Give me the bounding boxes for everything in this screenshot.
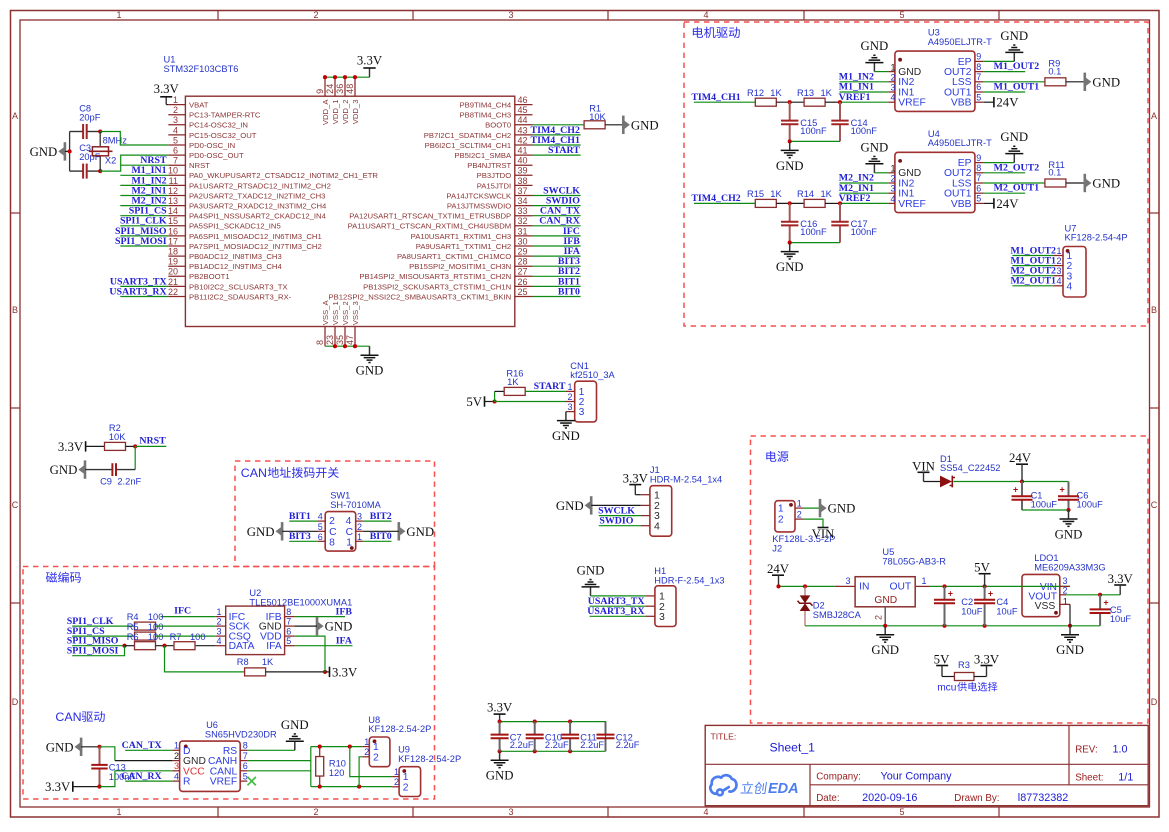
- svg-text:PB1ADC12_IN9TIM3_CH4: PB1ADC12_IN9TIM3_CH4: [189, 262, 282, 271]
- ground under LDO1: [1069, 626, 1071, 635]
- svg-text:17: 17: [168, 236, 178, 246]
- svg-text:1: 1: [568, 382, 573, 392]
- J1 pins: [641, 494, 650, 496]
- svg-text:19: 19: [168, 257, 178, 267]
- wire IFC to U2 pin1: [161, 616, 216, 618]
- svg-text:X2: X2: [105, 155, 116, 165]
- svg-text:R13: R13: [797, 88, 814, 98]
- svg-text:IFA: IFA: [266, 641, 282, 652]
- U1 pin 19 PB1ADC12_IN9TIM3_CH4: [168, 265, 185, 267]
- svg-text:DATA: DATA: [229, 641, 255, 652]
- svg-text:2: 2: [891, 72, 896, 82]
- svg-text:SPI1_MOSI: SPI1_MOSI: [115, 236, 167, 247]
- wire cap bottoms to gnd: [1022, 509, 1069, 511]
- resistor R13: [804, 98, 825, 106]
- power flag 24V at U3 VBB: [984, 101, 994, 103]
- svg-text:4: 4: [1067, 281, 1073, 292]
- svg-text:6: 6: [976, 183, 981, 193]
- svg-text:7: 7: [286, 616, 291, 626]
- U1 pin 14 PA4SPI1_NSSUSART2_CKADC12_IN4: [168, 215, 185, 217]
- svg-text:VREF: VREF: [210, 777, 237, 788]
- U3 pin 1 GND: [888, 71, 895, 73]
- svg-text:VBB: VBB: [951, 199, 972, 210]
- wire net M2_OUT2 to U7 pin 3: [1012, 275, 1054, 277]
- svg-text:Company:: Company:: [816, 771, 861, 782]
- LDO1 pin stubs: [1060, 585, 1070, 587]
- svg-text:3: 3: [357, 512, 362, 522]
- wire net M2_IN1 to U1 pin 12: [120, 195, 168, 197]
- svg-text:REV:: REV:: [1075, 745, 1098, 756]
- svg-text:78L05G-AB3-R: 78L05G-AB3-R: [882, 556, 946, 566]
- ground under C16: [789, 243, 791, 252]
- U4 pin 7 LSS: [975, 182, 984, 184]
- wire BIT3 to SW1 pin6: [289, 540, 318, 542]
- svg-text:44: 44: [518, 115, 528, 125]
- svg-text:100nF: 100nF: [800, 126, 827, 136]
- svg-text:+: +: [988, 589, 993, 599]
- wire SW1 pin1 to BIT0: [363, 540, 392, 542]
- wire U3 LSS to R9: [984, 81, 1045, 83]
- resistor R12: [755, 98, 776, 106]
- svg-text:BIT0: BIT0: [558, 286, 580, 297]
- svg-text:9: 9: [315, 89, 325, 94]
- svg-text:24V: 24V: [767, 562, 790, 576]
- power flag VIN at J2: [818, 527, 829, 529]
- wire R7 to U2 pin4: [196, 645, 216, 647]
- svg-text:PA13JTMSSWDIO: PA13JTMSSWDIO: [447, 202, 511, 211]
- svg-text:PB2BOOT1: PB2BOOT1: [189, 272, 230, 281]
- capacitor C6: [1068, 482, 1070, 497]
- wire cap bottoms U3: [790, 140, 840, 142]
- wire R16 to CN1 pin1 START: [525, 390, 566, 392]
- svg-text:GND: GND: [356, 364, 384, 378]
- svg-text:8MHz: 8MHz: [103, 136, 128, 146]
- svg-text:VDD_2: VDD_2: [341, 100, 350, 125]
- svg-text:4: 4: [891, 93, 896, 103]
- svg-text:PA10USART1_RXTIM1_CH3: PA10USART1_RXTIM1_CH3: [411, 232, 512, 241]
- svg-text:SPI1_MOSI: SPI1_MOSI: [67, 646, 119, 657]
- CN1 pins: [566, 390, 575, 392]
- ground above U3 pin1: [874, 71, 888, 73]
- svg-text:47: 47: [345, 335, 355, 345]
- svg-text:1: 1: [173, 95, 178, 105]
- svg-text:VIN: VIN: [812, 527, 835, 541]
- svg-text:20: 20: [168, 267, 178, 277]
- svg-text:3: 3: [1057, 266, 1062, 276]
- svg-text:VBB: VBB: [951, 98, 972, 109]
- wire U4 LSS to R11: [984, 182, 1045, 184]
- svg-text:41: 41: [518, 146, 528, 156]
- svg-text:6: 6: [976, 82, 981, 92]
- svg-text:10uF: 10uF: [961, 606, 983, 616]
- ground under C7: [499, 751, 501, 760]
- resistor R8: [245, 668, 266, 676]
- svg-text:3.3V: 3.3V: [974, 652, 1000, 666]
- svg-text:1: 1: [891, 164, 896, 174]
- svg-text:24: 24: [325, 84, 335, 94]
- svg-text:10uF: 10uF: [996, 606, 1018, 616]
- svg-text:5V: 5V: [934, 652, 950, 666]
- U1 pin 26 PB13SPI2_SCKUSART3_CTSTIM1_CH1N: [515, 285, 533, 287]
- U2 pins: [216, 616, 226, 618]
- ground under C15: [789, 141, 791, 150]
- wire J2 pin2 to VIN: [803, 519, 823, 527]
- svg-text:VIN: VIN: [912, 459, 935, 473]
- svg-text:2.2uF: 2.2uF: [545, 740, 569, 750]
- resistor R16: [504, 387, 525, 395]
- wire net SPI1_CLK to U1 pin 15: [120, 225, 168, 227]
- svg-text:2: 2: [403, 782, 409, 793]
- svg-text:2: 2: [174, 751, 179, 761]
- svg-text:NRST: NRST: [189, 161, 210, 170]
- U1 pin 46 PB9TIM4_CH4: [515, 104, 533, 106]
- svg-text:7: 7: [173, 156, 178, 166]
- svg-text:PA11USART1_CTSCAN_RXTIM1_CH4US: PA11USART1_CTSCAN_RXTIM1_CH4USBDM: [348, 222, 512, 231]
- svg-text:8: 8: [286, 607, 291, 617]
- svg-text:STM32F103CBT6: STM32F103CBT6: [164, 64, 239, 74]
- wire M1_IN1 to U3 pin3: [840, 91, 889, 93]
- svg-text:1: 1: [116, 807, 121, 817]
- svg-text:1: 1: [346, 537, 352, 548]
- svg-text:4: 4: [217, 636, 222, 646]
- svg-text:14: 14: [168, 206, 178, 216]
- svg-text:Your Company: Your Company: [881, 770, 953, 782]
- svg-text:GND: GND: [776, 159, 804, 173]
- wire J2 pin1 to gnd: [803, 507, 820, 509]
- svg-text:2: 2: [364, 747, 369, 757]
- svg-text:GND: GND: [861, 39, 889, 53]
- driver U3 A4950ELJTR-T body: [895, 51, 975, 111]
- svg-text:100nF: 100nF: [851, 126, 878, 136]
- svg-text:C: C: [1151, 500, 1158, 510]
- wire CANL: [247, 770, 310, 772]
- resistor R9: [1045, 78, 1066, 86]
- ground flag at SW1 pin5: [281, 522, 284, 540]
- wire SPI1_CLK to R5: [72, 625, 134, 627]
- svg-text:2: 2: [394, 777, 399, 787]
- wire LDO1 VSS to gnd: [1069, 604, 1071, 625]
- svg-text:3.3V: 3.3V: [1108, 572, 1134, 586]
- svg-text:1: 1: [1057, 246, 1062, 256]
- svg-text:26: 26: [518, 277, 528, 287]
- regulator U5 body: [855, 577, 915, 607]
- svg-text:GND: GND: [577, 564, 605, 578]
- svg-text:B: B: [1151, 305, 1157, 315]
- svg-text:31: 31: [518, 226, 528, 236]
- U5 GND pin 2: [884, 607, 886, 626]
- ground flag at J1 pin2: [590, 496, 593, 514]
- wire R3 to 3.3V: [974, 676, 987, 678]
- svg-text:3: 3: [508, 807, 513, 817]
- wire DATA node to R8: [165, 646, 245, 672]
- switch SW1 body: [325, 512, 356, 551]
- U1 pin 32 PA11USART1_CTSCAN_RXTIM1_CH4USBDM: [515, 225, 533, 227]
- svg-text:24V: 24V: [996, 96, 1019, 110]
- svg-text:3.3V: 3.3V: [58, 440, 84, 454]
- wire SPI1_MOSI join: [72, 646, 124, 656]
- wire 3.3V to C13: [73, 786, 100, 788]
- U1 VDD pins 9/24/36/48: [324, 77, 326, 96]
- svg-text:1: 1: [174, 741, 179, 751]
- svg-text:A: A: [1151, 111, 1157, 121]
- svg-text:R3: R3: [958, 660, 970, 670]
- svg-text:3.3V: 3.3V: [332, 665, 358, 679]
- svg-text:GND: GND: [50, 463, 78, 477]
- capacitor C11: [569, 722, 571, 735]
- node OSC_IN junction: [98, 129, 102, 133]
- svg-text:PC14-OSC32_IN: PC14-OSC32_IN: [189, 121, 248, 130]
- svg-text:3: 3: [579, 407, 585, 418]
- svg-text:1K: 1K: [262, 657, 274, 667]
- svg-text:3.3V: 3.3V: [357, 53, 383, 67]
- svg-text:100nF: 100nF: [109, 772, 136, 782]
- svg-text:SS54_C22452: SS54_C22452: [940, 463, 1000, 473]
- section box 电机驱动: [684, 22, 1148, 326]
- svg-text:IFA: IFA: [336, 635, 353, 646]
- svg-text:PB14SPI2_MISOUSART3_RTSTIM1_CH: PB14SPI2_MISOUSART3_RTSTIM1_CH2N: [359, 272, 511, 281]
- svg-text:+: +: [948, 589, 953, 599]
- svg-text:SWDIO: SWDIO: [599, 516, 633, 527]
- U3 pin 6 OUT1: [975, 91, 984, 93]
- svg-text:C9: C9: [100, 477, 112, 487]
- wire U1 pin 25 to net BIT0: [533, 296, 581, 298]
- resistor R1: [584, 121, 605, 129]
- capacitor C10: [534, 722, 536, 735]
- ground flag at J2 pin1: [819, 499, 822, 517]
- svg-text:PB3JTDO: PB3JTDO: [477, 171, 512, 180]
- svg-text:GND: GND: [30, 145, 58, 159]
- SW1 pins: [318, 520, 325, 522]
- wire U1 pin 30 to net IFB: [533, 245, 581, 247]
- svg-text:TIM4_CH1: TIM4_CH1: [691, 92, 740, 103]
- resistor R2: [105, 442, 126, 450]
- svg-text:13: 13: [168, 196, 178, 206]
- power flag 3.3V at U1 pin1: [166, 104, 168, 106]
- svg-text:16: 16: [168, 226, 178, 236]
- svg-text:ME6209A33M3G: ME6209A33M3G: [1034, 562, 1105, 572]
- capacitor C4: [984, 586, 986, 599]
- H1 pins: [646, 595, 655, 597]
- section title 电源: [766, 451, 788, 462]
- resistor R10: [319, 747, 321, 757]
- svg-text:9: 9: [976, 153, 981, 163]
- svg-text:R7: R7: [170, 632, 182, 642]
- svg-text:PB4NJTRST: PB4NJTRST: [467, 161, 511, 170]
- ground under C1 C6: [1068, 510, 1070, 519]
- wire U4 OUT1: [984, 192, 1025, 194]
- capacitor C5: [1099, 595, 1101, 610]
- U3 pin 9 EP: [975, 60, 984, 62]
- U1 pin 21 PB10I2C2_SCLUSART3_TX: [168, 285, 185, 287]
- svg-text:28: 28: [518, 257, 528, 267]
- svg-text:C: C: [12, 500, 19, 510]
- svg-text:R4: R4: [127, 612, 139, 622]
- U7 pin 2: [1054, 265, 1063, 267]
- U1 pin 20 PB2BOOT1: [168, 275, 185, 277]
- svg-text:M2_OUT1: M2_OUT1: [994, 183, 1040, 194]
- svg-text:2: 2: [797, 509, 802, 519]
- svg-text:GND: GND: [247, 525, 275, 539]
- svg-text:PA0_WKUPUSART2_CTSADC12_IN0TIM: PA0_WKUPUSART2_CTSADC12_IN0TIM2_CH1_ETR: [189, 171, 378, 180]
- diode D2 TVS: [804, 586, 806, 595]
- svg-text:4: 4: [654, 520, 660, 532]
- svg-text:10: 10: [168, 166, 178, 176]
- svg-text:VREF1: VREF1: [839, 92, 871, 103]
- wire gnd rail under caps: [500, 750, 606, 752]
- svg-text:1K: 1K: [821, 189, 833, 199]
- node OSC_OUT junction: [98, 169, 102, 173]
- wire SWDIO to J1 pin4: [599, 525, 641, 527]
- svg-text:PB15SPI2_MOSITIM1_CH3N: PB15SPI2_MOSITIM1_CH3N: [409, 262, 511, 271]
- svg-text:7: 7: [243, 751, 248, 761]
- ground flag at crystal: [64, 142, 67, 160]
- svg-text:7: 7: [976, 72, 981, 82]
- ground flag at U2 pin7: [316, 617, 319, 635]
- ground flag at C9: [84, 460, 87, 478]
- svg-text:100: 100: [148, 622, 164, 632]
- U1 pin 22 PB11I2C2_SDAUSART3_RX-: [168, 296, 185, 298]
- wire USART3_RX to H1 pin3: [590, 615, 646, 617]
- svg-text:5V: 5V: [466, 395, 482, 409]
- svg-text:GND: GND: [1000, 130, 1028, 144]
- svg-text:4: 4: [346, 516, 352, 527]
- svg-text:4: 4: [174, 772, 179, 782]
- svg-text:R5: R5: [127, 622, 139, 632]
- svg-text:VDD_3: VDD_3: [351, 100, 360, 125]
- capacitor C17: [839, 203, 841, 221]
- svg-text:D: D: [12, 697, 19, 707]
- wire VIN to D1: [924, 481, 941, 483]
- svg-text:PB7I2C1_SDATIM4_CH2: PB7I2C1_SDATIM4_CH2: [424, 131, 511, 140]
- wire U1 pin 28 to net BIT3: [533, 265, 581, 267]
- sensor U2 body: [226, 606, 285, 655]
- wire VSS rail to GND: [325, 345, 370, 347]
- svg-text:PB0ADC12_IN8TIM3_CH3: PB0ADC12_IN8TIM3_CH3: [189, 252, 282, 261]
- svg-text:5: 5: [899, 807, 904, 817]
- svg-text:20pF: 20pF: [79, 112, 101, 122]
- svg-text:PC15-OSC32_OUT: PC15-OSC32_OUT: [189, 131, 257, 140]
- capacitor C7: [499, 722, 501, 735]
- section title 磁编码: [46, 572, 81, 583]
- ground above U4 pin1: [874, 172, 888, 174]
- resistor R15: [755, 199, 776, 207]
- svg-text:PA4SPI1_NSSUSART2_CKADC12_IN4: PA4SPI1_NSSUSART2_CKADC12_IN4: [189, 212, 327, 221]
- svg-text:4: 4: [703, 807, 708, 817]
- svg-text:6: 6: [173, 146, 178, 156]
- svg-text:kf2510_3A: kf2510_3A: [570, 370, 615, 380]
- svg-text:2.2uF: 2.2uF: [616, 740, 640, 750]
- wire 5V to R16: [494, 391, 496, 401]
- svg-text:GND: GND: [828, 502, 856, 516]
- U1 pin 29 PA8USART1_CKTIM1_CH1MCO: [515, 255, 533, 257]
- wire CAN_RX to U6 pin4: [125, 780, 172, 782]
- svg-text:3: 3: [508, 10, 513, 20]
- connector U9 body: [399, 767, 421, 797]
- wire U4 OUT2: [984, 172, 1025, 174]
- svg-text:32: 32: [518, 216, 528, 226]
- wire U6 RS to gnd: [247, 749, 294, 751]
- svg-text:2.2uF: 2.2uF: [580, 740, 604, 750]
- resistor R14: [804, 199, 825, 207]
- svg-text:3.3V: 3.3V: [487, 701, 513, 715]
- wire R11 to GND: [1066, 182, 1085, 184]
- svg-text:BOOT0: BOOT0: [485, 121, 511, 130]
- wire SPI1_MISO to R6b: [72, 645, 124, 647]
- svg-text:VDD_1: VDD_1: [331, 100, 340, 125]
- svg-text:START: START: [548, 145, 580, 156]
- svg-text:1: 1: [357, 532, 362, 542]
- svg-text:PB12SPI2_NSSI2C2_SMBAUSART3_CK: PB12SPI2_NSSI2C2_SMBAUSART3_CKTIM1_BKIN: [328, 292, 511, 301]
- wire net USART3_TX to U1 pin 21: [120, 285, 168, 287]
- wire CANL bottom rail: [311, 786, 392, 788]
- U1 pin 45 PB8TIM4_CH3: [515, 114, 533, 116]
- U3 pin 3 IN1: [888, 91, 895, 93]
- wire crystal to U1 pin5: [100, 132, 168, 146]
- svg-text:6: 6: [286, 626, 291, 636]
- svg-text:3: 3: [891, 83, 896, 93]
- svg-text:GND: GND: [325, 620, 353, 634]
- capacitor C1: [1021, 482, 1023, 497]
- svg-text:BIT2: BIT2: [370, 511, 392, 522]
- svg-text:24V: 24V: [996, 197, 1019, 211]
- svg-text:6: 6: [318, 532, 323, 542]
- svg-text:VSS_3: VSS_3: [351, 301, 360, 325]
- wire CANH top rail: [311, 746, 363, 748]
- wire R14 to U4 pin4: [825, 202, 840, 204]
- svg-text:R: R: [183, 777, 190, 788]
- svg-text:9: 9: [976, 52, 981, 62]
- svg-text:BIT1: BIT1: [289, 511, 311, 522]
- svg-text:START: START: [534, 381, 566, 392]
- wire U1 pin 31 to net IFC: [533, 235, 581, 237]
- U1 pin 13 PA3USART2_RXADC12_IN3TIM2_CH4: [168, 205, 185, 207]
- wire U1 pin 34 to net SWDIO: [533, 205, 581, 207]
- wire net M1_IN1 to U1 pin 10: [120, 174, 168, 176]
- svg-text:VSS_A: VSS_A: [321, 300, 330, 326]
- wire NRST to C9: [134, 446, 136, 469]
- U1 pin 10 PA0_WKUPUSART2_CTSADC12_IN0TIM2_CH1_ETR: [168, 174, 185, 176]
- wire M1_IN2 to U3 pin2: [840, 81, 889, 83]
- svg-text:GND: GND: [406, 525, 434, 539]
- wire D1 to 24V rail: [954, 481, 1069, 483]
- frame column/row tick marks: [217, 11, 219, 21]
- capacitor C9: [85, 469, 112, 471]
- wire M2_IN1 to U4 pin3: [840, 192, 889, 194]
- svg-text:GND: GND: [1055, 527, 1083, 541]
- svg-text:8: 8: [329, 537, 335, 548]
- wire net SPI1_MISO to U1 pin 16: [120, 235, 168, 237]
- U4 pin 2 IN2: [888, 182, 895, 184]
- svg-text:PA1USART2_RTSADC12_IN1TIM2_CH2: PA1USART2_RTSADC12_IN1TIM2_CH2: [189, 181, 331, 190]
- ground under U5: [884, 626, 886, 635]
- U1 pin 2 PC13-TAMPER-RTC: [168, 114, 185, 116]
- U1 pin 30 PA9USART1_TXTIM1_CH2: [515, 245, 533, 247]
- wire R12 to R13: [776, 101, 804, 103]
- svg-text:35: 35: [335, 335, 345, 345]
- wire 5V rail through LDO1: [1022, 585, 1060, 587]
- U4 pin 3 IN1: [888, 192, 895, 194]
- svg-text:PA14JTCKSWCLK: PA14JTCKSWCLK: [446, 191, 512, 200]
- svg-text:1: 1: [364, 737, 369, 747]
- svg-text:D: D: [1151, 697, 1158, 707]
- svg-text:2: 2: [357, 522, 362, 532]
- svg-text:PA15JTDI: PA15JTDI: [477, 181, 511, 190]
- svg-text:TITLE:: TITLE:: [711, 732, 737, 742]
- svg-text:25: 25: [518, 287, 528, 297]
- svg-text:Sheet_1: Sheet_1: [770, 741, 816, 755]
- svg-text:M1_OUT2: M1_OUT2: [994, 61, 1040, 72]
- wire U3 OUT1: [984, 91, 1025, 93]
